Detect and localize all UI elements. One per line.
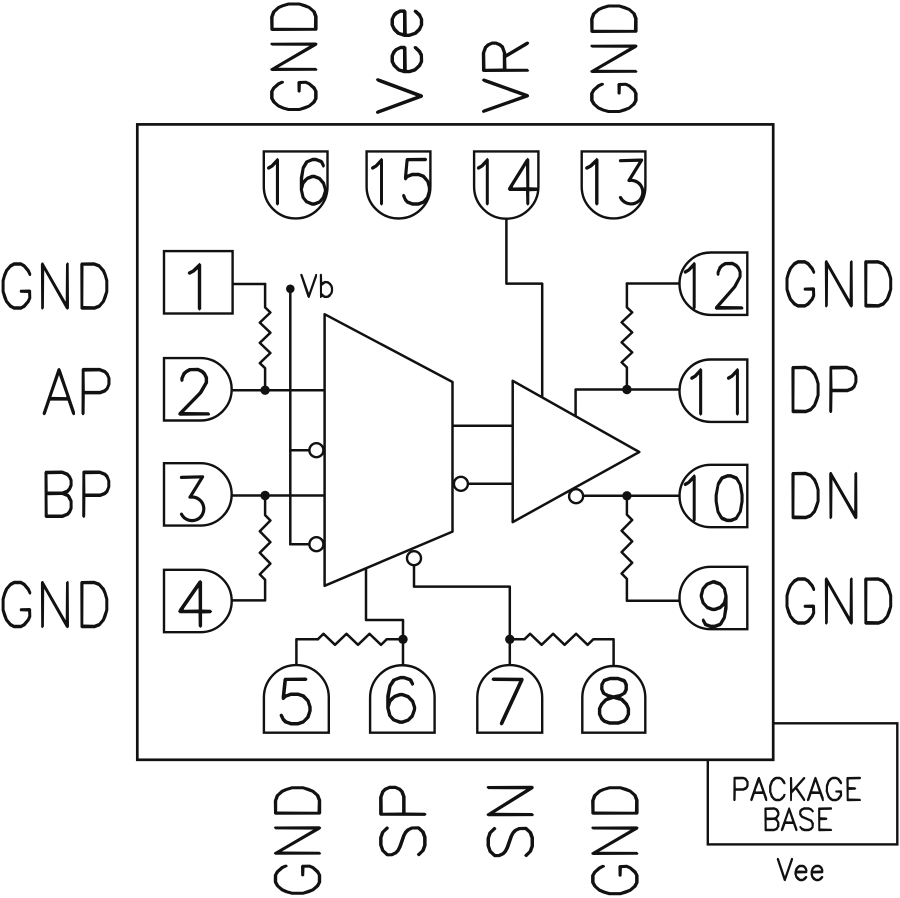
pin 2 pad <box>164 358 232 420</box>
net label DN (pin 10) <box>791 472 857 519</box>
inverter bubble U1 upper input <box>309 443 323 457</box>
net label SP (pin 6) <box>379 786 427 857</box>
pin 5 pad <box>264 665 329 733</box>
pin 14 pad <box>474 151 538 218</box>
pin 4 pad <box>164 570 232 632</box>
inverter bubble U2 output <box>569 489 583 503</box>
resistor R4 (pin10 to pin9) <box>622 496 680 601</box>
net label GND (pin 5) <box>274 786 321 895</box>
output buffer U2 (triangle) <box>513 381 640 522</box>
inverter bubble U1 lower input <box>309 537 323 551</box>
wire amplifier inverted output to buffer <box>468 483 513 486</box>
net label GND (pin 16) <box>270 3 318 112</box>
wire pin3 (BP) to amplifier input <box>232 494 325 497</box>
pin 10 pad <box>680 465 748 527</box>
net label VR (pin 14) <box>482 42 529 114</box>
node dot pin6 junction <box>398 635 407 644</box>
node dot R3/DP junction <box>622 385 631 394</box>
pin 13 pad <box>582 151 646 218</box>
net label GND (pin 9) <box>786 577 893 625</box>
wire pin11 (DP) to buffer output <box>576 390 680 417</box>
wire amplifier bubble tap to pin7 <box>414 565 510 639</box>
wire pin1 to resistor R1 <box>233 283 266 286</box>
wire buffer inverted output to pin10 (DN) <box>583 495 679 498</box>
net label GND (pin 13) <box>590 5 638 114</box>
pin 15 pad <box>367 151 431 218</box>
wire pin5 stem <box>296 639 317 665</box>
node dot R4/DN junction <box>622 491 631 500</box>
wire amplifier output to buffer input <box>453 425 513 428</box>
wire Vb branch lower to bubble <box>290 543 309 546</box>
net label AP (pin 2) <box>43 368 111 416</box>
wire Vb vertical rail <box>289 289 292 544</box>
inverter bubble U1 output <box>454 477 468 491</box>
resistor R2 (pin3 to pin4) <box>232 496 271 601</box>
node dot pin7 junction <box>505 635 514 644</box>
inverter bubble U1 bottom tap <box>407 551 421 565</box>
wire pin7 stem <box>509 639 512 665</box>
node dot R2/BP junction <box>260 491 269 500</box>
net label Vee (package base) <box>777 858 824 881</box>
node Vb dot <box>286 285 295 294</box>
net label Vee (pin 15) <box>376 9 423 114</box>
VGA amplifier U1 (trapezoid) <box>325 314 453 586</box>
node dot R1/AP junction <box>260 386 269 395</box>
wire pin2 (AP) to amplifier input <box>232 389 325 392</box>
pin 7 pad <box>477 665 542 733</box>
wire pin12 (GND) to resistor R3 <box>627 282 680 285</box>
net label SN (pin 7) <box>487 786 535 858</box>
net label DP (pin 11) <box>791 366 857 413</box>
resistor R5 (pin5 to pin6) <box>318 634 403 645</box>
net label GND (pin 12) <box>786 260 893 308</box>
label PACKAGE BASE <box>733 777 861 831</box>
net label GND (pin 4) <box>2 581 109 628</box>
package outline (16-pad body) <box>137 124 773 759</box>
pin 12 pad <box>680 253 748 315</box>
pin 8 pad <box>582 666 645 733</box>
pin 9 pad <box>680 567 748 629</box>
wire pin14 (VR) to output buffer <box>506 218 542 397</box>
pin 3 pad <box>164 463 232 525</box>
wire Vb branch upper to bubble <box>290 449 309 452</box>
pin 1 pad <box>164 251 233 313</box>
wire pin6 stem <box>402 639 405 665</box>
net label GND (pin 1) <box>2 262 109 310</box>
resistor R1 (pin1 bias) <box>260 284 271 390</box>
label Vb <box>300 274 333 298</box>
pin 16 pad <box>264 151 328 218</box>
resistor R6 (pin7 to pin8) <box>510 634 614 665</box>
net label GND (pin 8) <box>591 786 639 895</box>
wire amplifier bottom tap to pin6 <box>366 569 403 640</box>
pin 11 pad <box>680 360 748 422</box>
net label BP (pin 3) <box>45 471 111 519</box>
package base outline <box>708 723 898 844</box>
resistor R3 (pin12 pull) <box>622 284 633 390</box>
pin 6 pad <box>370 665 435 732</box>
